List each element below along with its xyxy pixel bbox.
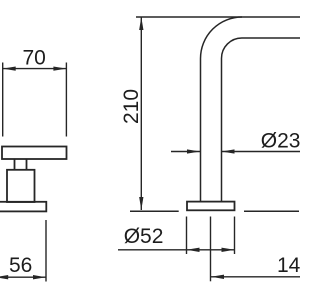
svg-text:56: 56 bbox=[9, 254, 32, 277]
svg-text:Ø23: Ø23 bbox=[261, 129, 300, 152]
svg-text:Ø52: Ø52 bbox=[124, 225, 164, 248]
svg-text:70: 70 bbox=[23, 47, 46, 70]
svg-text:210: 210 bbox=[120, 89, 143, 124]
svg-text:145: 145 bbox=[277, 254, 300, 277]
